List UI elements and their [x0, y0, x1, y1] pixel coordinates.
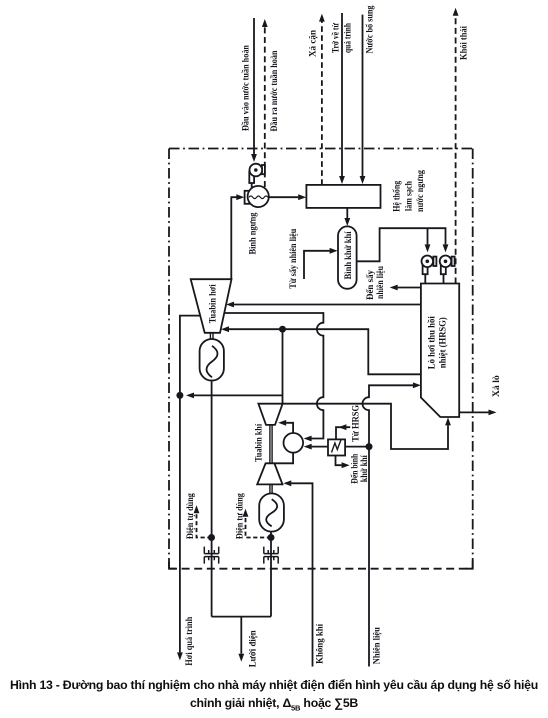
wire: gas turbine exhaust to HRSG — [283, 404, 448, 449]
svg-text:nhiệt (HRSG): nhiệt (HRSG) — [438, 317, 448, 368]
wire: HRSG blowdown Xa lo — [459, 411, 488, 413]
caption — [0, 676, 548, 714]
wire: turbine exhaust to condenser — [231, 197, 236, 279]
combustor — [284, 433, 304, 453]
svg-text:Xả lò: Xả lò — [491, 375, 501, 398]
node: ST electrical junction — [208, 534, 215, 541]
svg-text:Từ HRSG: Từ HRSG — [351, 405, 361, 442]
wire: auxiliary power tap GT side (dashed) — [246, 517, 272, 538]
wire: fuel to heater M-box — [345, 446, 369, 448]
svg-text:Điện tự dùng: Điện tự dùng — [185, 493, 195, 539]
wire: process return line — [341, 13, 343, 176]
svg-text:Lưới điện: Lưới điện — [248, 630, 258, 667]
test boundary corner joins — [169, 561, 473, 569]
wire: condensate to polishing system — [269, 196, 299, 198]
svg-text:nước ngưng: nước ngưng — [415, 170, 425, 212]
wire: blowoff Xa can line (dashed) — [321, 21, 323, 185]
svg-text:Khói thải: Khói thải — [458, 26, 468, 60]
pump P1 (circulating water pump) — [249, 164, 265, 188]
svg-text:Tuabin khí: Tuabin khí — [254, 423, 264, 461]
wire: main steam HRSG to steam turbine — [234, 304, 421, 306]
wire: stack exhaust Khoi thai line (dashed) — [455, 16, 457, 284]
steam turbine — [191, 279, 232, 333]
svg-text:quá trình: quá trình — [343, 23, 353, 53]
svg-text:Đầu vào nước tuần hoàn: Đầu vào nước tuần hoàn — [241, 45, 251, 131]
svg-text:khử khí: khử khí — [359, 455, 369, 482]
HRSG vessel — [421, 284, 459, 418]
svg-text:Xả cặn: Xả cặn — [307, 30, 317, 57]
wire: to fuel drying (Den say nhien lieu) — [398, 287, 421, 289]
wire: combustor outlet to gas turbine inlet — [286, 423, 293, 433]
gas turbine shaft lower — [270, 484, 272, 493]
wire: fuel supply Nhien lieu — [368, 447, 370, 667]
svg-text:Điện tự dùng: Điện tự dùng — [235, 493, 245, 539]
wire: feed pump discharge legs into HRSG — [425, 274, 443, 283]
wire: makeup water line — [362, 15, 364, 176]
gas turbine shaft upper — [270, 425, 272, 463]
wire: LP steam HRSG to steam turbine — [229, 329, 421, 374]
wire: heating water from HRSG stub into M-box — [336, 427, 350, 439]
node: GT electrical junction — [268, 534, 275, 541]
wire: GT generator electrical lead — [270, 532, 272, 617]
wire: heated fuel into combustor — [312, 446, 328, 448]
steam turbine shaft — [210, 333, 213, 339]
wire: feedwater branch to first pump — [427, 228, 429, 244]
svg-text:Đến bình: Đến bình — [350, 454, 360, 484]
svg-text:nhiên liệu: nhiên liệu — [375, 266, 385, 299]
svg-text:Từ sấy nhiên liệu: Từ sấy nhiên liệu — [288, 229, 298, 289]
svg-text:Tuabin hơi: Tuabin hơi — [207, 284, 217, 323]
test boundary right edge (dash-dot) — [472, 149, 474, 569]
svg-text:Không khí: Không khí — [315, 623, 325, 663]
wire: electrical bus — [212, 616, 272, 618]
fuel gas heater (M-box) — [328, 439, 345, 455]
wire: from fuel drying stub into deaerator — [304, 251, 330, 279]
svg-text:Nhiên liệu: Nhiên liệu — [372, 627, 382, 664]
deaerator vessel — [338, 226, 357, 288]
svg-text:Hệ thống: Hệ thống — [392, 180, 402, 211]
generator G1 (steam turbine generator) — [200, 339, 224, 381]
pump P3 (feedwater pump B) — [440, 255, 455, 274]
test boundary bottom edge (dashed) — [169, 568, 473, 570]
transformer T1 — [204, 547, 218, 564]
wire: compressor discharge to combustor — [274, 453, 293, 464]
transformer T2 — [264, 547, 278, 564]
svg-text:làm sạch: làm sạch — [404, 181, 414, 211]
wire: polished condensate to deaerator — [346, 208, 348, 218]
condenser — [245, 186, 269, 207]
wire: grid export Luoi dien — [240, 617, 242, 654]
node: fuel junction — [366, 443, 373, 450]
node: process steam junction — [176, 392, 183, 399]
wire: steam injection line from steam turbine to GT combustor (with crossover hops) — [224, 313, 323, 439]
wire: process steam extraction from turbine — [180, 316, 200, 653]
svg-text:Đầu ra nước tuần hoàn: Đầu ra nước tuần hoàn — [269, 51, 279, 132]
wire: feedwater from deaerator to feed pumps — [357, 228, 446, 261]
svg-text:Lò hơi thu hồi: Lò hơi thu hồi — [427, 316, 437, 369]
test boundary left edge (dash-dot) — [168, 149, 170, 569]
wire: combustion air inlet Khong khi — [291, 483, 312, 666]
wire: M-box water out to deaerator stub — [336, 456, 342, 466]
wire: duct burner fuel riser to HRSG (with hop) — [363, 385, 413, 446]
generator G2 (gas turbine generator) — [259, 493, 284, 531]
gas turbine compressor — [257, 463, 282, 484]
svg-text:Nước bổ sung: Nước bổ sung — [365, 5, 375, 53]
wire: circulating water inlet line — [253, 18, 255, 154]
svg-text:Đến sấy: Đến sấy — [365, 270, 375, 300]
svg-text:Bình khử khí: Bình khử khí — [343, 231, 353, 279]
pump P2 (feedwater pump A) — [422, 255, 437, 274]
wire: circulating water outlet line (dashed) — [264, 27, 266, 187]
node: LP steam junction — [279, 326, 286, 333]
svg-text:Hơi quá trình: Hơi quá trình — [184, 617, 194, 666]
gas turbine (turbine section) — [258, 404, 282, 425]
svg-text:Trở về từ: Trở về từ — [330, 23, 340, 53]
svg-text:Bình ngưng: Bình ngưng — [247, 212, 257, 254]
condensate polishing system box — [306, 185, 380, 208]
wire: auxiliary power tap ST side (dashed) — [197, 513, 212, 537]
wire: LP junction down-leg to gas turbine casing — [282, 329, 284, 404]
test boundary top edge (dash-dot) — [169, 148, 473, 150]
wire: ST generator electrical lead — [211, 381, 213, 617]
wire: branch to process steam line — [194, 394, 283, 396]
